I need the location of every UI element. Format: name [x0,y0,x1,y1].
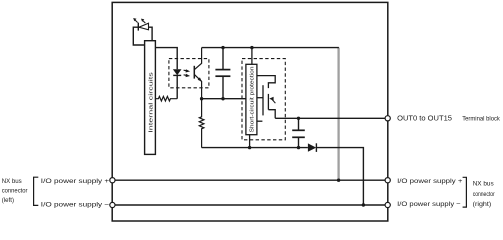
svg-text:Terminal block: Terminal block [462,116,500,123]
svg-text:I/O power supply −: I/O power supply − [41,201,109,208]
svg-text:(right): (right) [473,201,492,208]
svg-text:Short-circuit protection: Short-circuit protection [250,67,256,133]
svg-text:connector: connector [2,187,29,194]
svg-text:I/O power supply +: I/O power supply + [41,178,109,185]
svg-text:I/O power supply −: I/O power supply − [397,201,461,208]
svg-text:I/O power supply +: I/O power supply + [397,178,462,185]
svg-text:OUT0 to OUT15: OUT0 to OUT15 [397,113,452,122]
svg-text:(left): (left) [2,197,14,204]
svg-text:Internal circuits: Internal circuits [148,72,154,133]
svg-text:connector: connector [473,191,496,198]
svg-text:NX bus: NX bus [2,178,23,185]
svg-text:NX bus: NX bus [473,181,495,188]
